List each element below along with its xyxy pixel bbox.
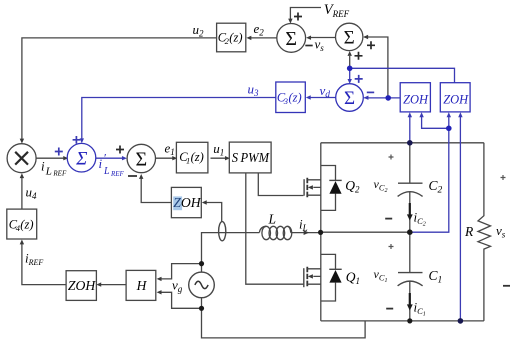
svg-text:H: H — [136, 278, 148, 293]
transistor Q2 (MOSFET) — [304, 178, 321, 197]
svg-text:C1(z): C1(z) — [179, 150, 204, 166]
wire i_LREF from multiplier to blue summer S1 — [36, 156, 68, 160]
minus at summer S2 bottom — [128, 175, 137, 177]
wire inductor to bridge midpoint node — [291, 230, 321, 235]
transistor Q1 (MOSFET) — [304, 267, 321, 287]
wire top rail — [321, 142, 484, 144]
plus at summer S3 top — [294, 13, 302, 21]
block ZOH (i_L sample, highlighted Z) — [171, 187, 202, 217]
polarity minus v_s — [503, 285, 510, 287]
wire feedback from mid ZOH to summer S2 — [139, 174, 171, 203]
plus at summer S4 right — [367, 41, 375, 49]
svg-text:ZOH: ZOH — [173, 195, 202, 210]
block C2(z) — [217, 23, 246, 52]
wire load branch with resistor R — [478, 143, 491, 321]
svg-text:S PWM: S PWM — [232, 151, 270, 166]
svg-text:Σ: Σ — [285, 28, 297, 50]
node junction v_g top terminal — [199, 261, 204, 266]
svg-text:R: R — [464, 224, 474, 239]
svg-text:C4(z): C4(z) — [9, 217, 34, 233]
plus at summer S1 top (blue) — [73, 136, 81, 144]
block ZOH2 (blue, v_C1 sample) — [440, 83, 470, 112]
node capacitor midpoint — [407, 229, 413, 235]
svg-text:ZOH: ZOH — [403, 91, 428, 106]
wire u1 from C1(z) to SPWM — [211, 156, 230, 160]
node bridge midpoint i_L — [318, 230, 323, 235]
svg-text:C3(z): C3(z) — [277, 91, 302, 107]
block C3(z) (blue) — [276, 82, 306, 113]
wire AC main line to inductor — [202, 233, 260, 273]
node top rail sample point — [407, 140, 413, 146]
svg-text:C1: C1 — [429, 268, 443, 286]
wire v_g return to bottom rail — [202, 297, 366, 338]
current arrow i_C1 — [407, 293, 413, 311]
svg-text:ZOH: ZOH — [68, 278, 97, 293]
polarity plus v_s — [501, 175, 506, 180]
wire middle rail to capacitor midpoint — [321, 231, 410, 233]
wire SPWM gate drive to Q1 — [246, 173, 304, 284]
wire u2 from C2(z) to multiplier — [20, 38, 217, 144]
svg-text:u4: u4 — [26, 184, 38, 201]
plus at summer S5 top (blue) — [355, 75, 363, 83]
svg-text:i′LREF: i′LREF — [99, 151, 125, 178]
svg-text:vC2: vC2 — [374, 177, 388, 194]
polarity minus v_C1 — [386, 308, 393, 310]
wire v_s sense from junction up to summer S4 right input — [363, 35, 388, 98]
wire top rail sample into ZOH1 — [408, 112, 412, 143]
summer S4 (v_s sum) — [336, 23, 363, 50]
svg-text:vs: vs — [315, 36, 325, 53]
summer S1 (blue, current reference) — [67, 143, 96, 172]
svg-text:vs: vs — [496, 223, 506, 240]
minus at summer S5 right (blue) — [367, 91, 374, 93]
svg-text:iLREF: iLREF — [41, 158, 67, 177]
block ZOH (i_REF path) — [66, 271, 96, 301]
node junction v_g bottom terminal — [199, 306, 204, 311]
node bottom rail sample point — [458, 318, 464, 324]
body diode of Q1 — [321, 254, 342, 301]
node B blue junction above summer S5 — [347, 66, 353, 72]
svg-text:Σ: Σ — [344, 28, 355, 49]
wire i_REF from ZOH to C4(z) — [20, 240, 66, 285]
svg-text:u1: u1 — [213, 141, 224, 158]
wire SPWM gate drive to Q2 — [258, 173, 303, 195]
block H — [126, 270, 156, 300]
svg-text:VREF: VREF — [324, 2, 350, 19]
svg-text:vg: vg — [172, 277, 183, 294]
block C4(z) — [7, 209, 37, 239]
svg-text:Σ: Σ — [75, 148, 87, 169]
svg-text:iL: iL — [299, 217, 308, 234]
svg-text:ZOH: ZOH — [443, 91, 468, 106]
current arrow i_C2 — [407, 203, 413, 221]
plus at summer S4 bottom — [355, 52, 363, 60]
wire from node B up to summer S4 bottom input — [347, 51, 351, 68]
svg-text:vC1: vC1 — [374, 267, 388, 284]
svg-text:e1: e1 — [165, 140, 175, 157]
wire bridge leg vertical — [320, 143, 322, 321]
svg-text:vd: vd — [320, 83, 331, 100]
svg-text:u3: u3 — [248, 81, 260, 98]
wire i'_LREF from blue summer S1 to summer S2 — [96, 156, 127, 160]
wire capacitor midpoint sample into ZOH2 — [410, 112, 451, 232]
summer S5 (blue, v_d) — [336, 84, 364, 112]
polarity plus v_C2 — [389, 155, 394, 160]
block SPWM — [229, 142, 271, 173]
node bottom rail at capacitor — [407, 318, 412, 323]
wire u3 from C3(z) to blue summer S1 — [80, 98, 276, 144]
svg-text:e2: e2 — [254, 21, 265, 38]
node blue junction at ZOH1 output — [385, 95, 391, 101]
block C1(z) — [176, 142, 208, 173]
wire v_d from blue summer S5 to C3(z) — [306, 95, 336, 99]
plus at summer S1 left (blue) — [55, 148, 63, 156]
wire V_REF lead into summer S3 — [288, 8, 321, 24]
summer S3 (voltage loop) — [277, 24, 306, 53]
wire from H to ZOH — [96, 282, 125, 286]
wire e2 from summer S3 to C2(z) — [246, 36, 276, 40]
svg-text:Q1: Q1 — [346, 269, 360, 286]
wire midpoint sample branch into ZOH1 — [419, 112, 449, 128]
wire bottom rail — [321, 320, 484, 322]
node blue junction below ZOH boxes — [446, 126, 452, 132]
polarity plus v_C1 — [389, 244, 394, 249]
capacitor C2 — [398, 143, 423, 232]
svg-text:L: L — [268, 212, 277, 227]
wire ZOH1 output to blue summer S5 minus input — [364, 95, 401, 99]
svg-text:u2: u2 — [193, 22, 205, 39]
wire u4 from C4(z) to multiplier — [20, 173, 24, 209]
svg-text:Σ: Σ — [344, 88, 355, 109]
wire bottom rail sample into ZOH2 — [458, 112, 462, 321]
svg-text:iREF: iREF — [25, 251, 43, 268]
svg-text:Q2: Q2 — [345, 178, 360, 195]
svg-text:C2(z): C2(z) — [218, 30, 243, 46]
wire e1 from summer S2 to C1(z) — [156, 156, 178, 160]
wire from current sensor to mid ZOH — [202, 200, 222, 222]
summer S2 (current loop) — [127, 144, 155, 172]
wire node B down into blue summer S5 plus input — [347, 68, 351, 84]
svg-text:iC2: iC2 — [414, 210, 426, 228]
minus before v_s label — [305, 45, 312, 47]
wire v_g lower sense to H — [157, 290, 202, 308]
body diode of Q2 — [321, 166, 342, 211]
wire v_s from summer S4 to summer S3 — [306, 35, 335, 39]
wire v_g upper sense to H — [157, 264, 202, 282]
inductor L — [259, 226, 291, 239]
svg-text:iC1: iC1 — [414, 300, 426, 318]
block ZOH1 (blue, v_C2 sample) — [400, 83, 430, 112]
svg-text:Σ: Σ — [135, 148, 147, 170]
capacitor C1 — [398, 232, 423, 321]
multiplier X — [7, 144, 36, 173]
polarity minus v_C2 — [385, 218, 392, 220]
current sensor ellipse on i_L wire — [219, 222, 226, 241]
wire node B across to ZOH2 top — [350, 68, 455, 82]
svg-text:C2: C2 — [429, 178, 443, 196]
AC source v_g — [189, 272, 215, 298]
plus at summer S2 left — [116, 146, 124, 154]
